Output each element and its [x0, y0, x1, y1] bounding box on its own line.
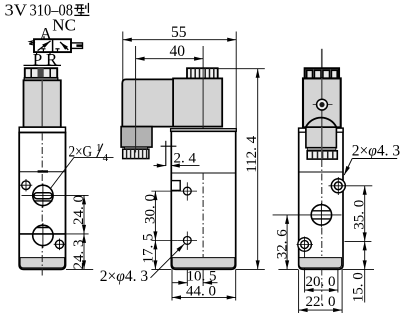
dimension 17.5 — [141, 234, 157, 270]
svg-text:32. 6: 32. 6 — [274, 229, 290, 260]
left view ribbed connector top — [25, 68, 57, 78]
right dark band — [307, 148, 336, 151]
left view connector base strip — [24, 78, 58, 80]
left view connector lid line — [24, 64, 62, 66]
right port circle — [273, 203, 342, 227]
right assembly centerline — [321, 127, 323, 159]
svg-text:2×G: 2×G — [69, 144, 93, 161]
dimension 10.5 — [173, 269, 218, 285]
baseline extensions middle — [151, 268, 264, 270]
svg-text:R: R — [46, 50, 58, 69]
extension lines 22.0 — [299, 270, 343, 314]
dimension 15.0 — [350, 241, 366, 302]
svg-text:2. 4: 2. 4 — [174, 151, 197, 167]
extension lines 30.0 — [151, 191, 177, 240]
svg-text:3V: 3V — [5, 0, 28, 19]
svg-text:2×φ4. 3: 2×φ4. 3 — [100, 268, 149, 285]
middle bottom gray band — [172, 258, 235, 268]
svg-text:P: P — [33, 50, 42, 69]
dimension 24.3 — [71, 234, 87, 270]
right dome arc — [306, 118, 336, 127]
svg-text:15. 0: 15. 0 — [350, 272, 366, 302]
left view coil centerline — [41, 80, 43, 127]
right main body — [299, 128, 343, 269]
right bracket right tab — [336, 128, 343, 132]
right screw with dark center — [313, 99, 333, 112]
svg-text:55: 55 — [171, 24, 187, 41]
svg-text:22. 0: 22. 0 — [306, 294, 336, 310]
2.4 feature pin — [161, 141, 177, 166]
right small hole bottom — [297, 237, 314, 270]
dimension 55 — [123, 24, 236, 41]
left view port circle 2 — [19, 223, 88, 248]
dimension 2.4 — [154, 151, 200, 167]
dimension 112.4 — [244, 69, 260, 270]
svg-text:24. 3: 24. 3 — [71, 240, 87, 270]
dimension 44.0 — [172, 283, 236, 299]
svg-text:40: 40 — [170, 43, 186, 60]
right coil centerline — [321, 78, 323, 127]
dimension 20.0 — [305, 274, 338, 290]
svg-text:2×φ4. 3: 2×φ4. 3 — [352, 142, 401, 159]
right armature ribs — [307, 151, 337, 159]
right bracket left tab — [299, 128, 306, 132]
left view main body — [19, 133, 65, 270]
svg-text:A: A — [40, 24, 52, 43]
left view centerline — [41, 134, 43, 278]
extension line left (55) — [122, 32, 124, 86]
gland centerline overdraw — [135, 79, 137, 152]
svg-text:NC: NC — [52, 15, 76, 34]
right centerline — [321, 160, 323, 256]
label 2x phi 4.3 (right) — [344, 142, 400, 175]
extension lines 10.5 — [187, 270, 203, 287]
valve centerline overdraw through solenoid — [202, 68, 204, 129]
extension lines 20.0 — [305, 270, 338, 293]
label 2x phi 4.3 (middle) — [100, 244, 185, 285]
middle connector lower dark block — [121, 127, 152, 148]
right top hole (phi 4.3) — [329, 177, 373, 195]
CJK char 型 (drawn strokes) — [74, 3, 89, 16]
svg-text:35. 0: 35. 0 — [352, 200, 368, 230]
label 2xG1/4 — [51, 142, 114, 188]
svg-text:112. 4: 112. 4 — [244, 135, 260, 172]
dimension 40 — [136, 43, 204, 60]
extension 35.0 bottom — [345, 240, 372, 242]
middle solenoid body — [173, 78, 222, 126]
port stub P — [36, 52, 38, 55]
middle hole 2 — [178, 232, 197, 250]
left view baseline extension — [66, 268, 93, 270]
middle valve top plate — [171, 129, 237, 132]
extension line right (55/body edge) — [235, 32, 237, 130]
svg-text:30. 0: 30. 0 — [142, 194, 158, 224]
valve symbol body (2 squares) — [34, 39, 71, 52]
right bottom gray band — [299, 258, 342, 268]
extension line (40 right, valve centerline) — [202, 46, 204, 173]
valve symbol spring — [29, 41, 34, 45]
title 3V310-08 — [5, 0, 74, 19]
right centerline below body — [321, 270, 323, 307]
right section line — [299, 171, 343, 173]
right baseline extensions — [278, 268, 374, 270]
left view flange band — [19, 127, 65, 132]
manual override rectangle — [171, 181, 180, 191]
svg-text:20. 0: 20. 0 — [306, 274, 336, 290]
middle DIN connector elbow — [122, 79, 173, 126]
right view pin — [321, 49, 323, 69]
right solenoid body — [303, 78, 341, 127]
valve symbol right cell flow arrow — [60, 42, 68, 50]
dimension 32.6 — [274, 215, 290, 270]
dimension 22.0 — [299, 294, 343, 310]
left view solenoid coil body — [24, 80, 61, 127]
dimension 30.0 — [142, 191, 158, 240]
valve symbol left cell flow arrow — [38, 41, 51, 51]
dimension 24.0 — [71, 195, 87, 234]
left view center tick — [38, 170, 48, 172]
extension line (40 left, gland centerline) — [135, 46, 137, 153]
valve symbol right cell blocked port T — [55, 49, 59, 52]
left view small hole top — [20, 179, 32, 191]
left view small hole bottom — [54, 239, 66, 251]
svg-text:24. 0: 24. 0 — [71, 195, 87, 225]
right ribbed top block — [305, 68, 339, 78]
middle cable gland neck — [125, 147, 148, 149]
middle ribbed terminal block — [187, 68, 218, 78]
left view bottom gray band — [20, 258, 65, 268]
extension lines 44.0 — [172, 270, 236, 301]
port stub R — [49, 52, 51, 55]
middle hole 1 — [178, 182, 197, 200]
valve symbol left cell blocked port T — [41, 49, 45, 52]
svg-text:44. 0: 44. 0 — [186, 283, 216, 299]
middle valve body — [171, 131, 235, 269]
svg-text:10. 5: 10. 5 — [187, 269, 217, 285]
valve symbol solenoid box — [71, 43, 83, 49]
right gray block — [306, 127, 337, 148]
svg-text:17. 5: 17. 5 — [141, 234, 157, 264]
middle cable gland ribs — [123, 149, 149, 158]
middle section line — [171, 172, 235, 174]
middle centerline dash-dot — [202, 173, 204, 257]
dimension 35.0 — [352, 186, 368, 242]
left view section line — [19, 171, 65, 173]
extension line 112.4 top — [218, 68, 265, 70]
port stub A — [43, 36, 45, 39]
left view port circle 1 — [22, 184, 89, 208]
